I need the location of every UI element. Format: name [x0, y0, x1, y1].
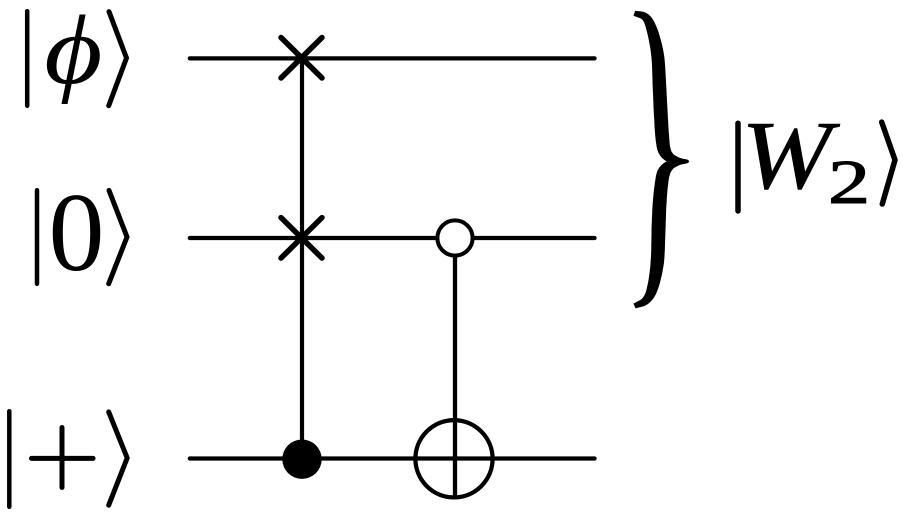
right curly brace grouping qubits 1 and 2 [633, 11, 689, 309]
right angle bracket of |phi> [109, 12, 127, 106]
plus glyph [32, 428, 94, 488]
swap cross X on qubit 2 [281, 218, 322, 259]
wire controlled-swap vertical connector [300, 58, 304, 459]
wire qubit 2 horizontal [190, 236, 595, 240]
svg-text:2: 2 [828, 149, 870, 218]
ket bar of |0> [35, 190, 40, 284]
svg-text:W: W [741, 102, 840, 209]
anticontrol open circle on qubit 2 [437, 220, 472, 255]
wire qubit 3 horizontal [190, 456, 595, 460]
node qubit 2 input label |0> [37, 171, 127, 295]
node qubit 1 input label |phi> [27, 0, 126, 106]
swap cross X on qubit 1 [281, 38, 322, 79]
right angle bracket of |W2> [882, 122, 895, 204]
node qubit 3 input label |+> [9, 411, 127, 507]
svg-text:0: 0 [49, 171, 105, 295]
control dot (filled) on qubit 3 [282, 440, 321, 479]
ket bar of |phi> [25, 11, 30, 106]
svg-text:ϕ: ϕ [44, 0, 102, 104]
right angle bracket of |0> [109, 190, 127, 283]
wire cnot vertical connector [453, 238, 457, 499]
cnot target XOR circle on qubit 3 [415, 420, 492, 497]
right angle bracket of |+> [109, 412, 128, 505]
wire qubit 1 horizontal [190, 56, 595, 60]
ket bar of |W2> [735, 123, 741, 211]
node output label |W2> [738, 102, 895, 217]
ket bar of |+> [7, 411, 12, 507]
